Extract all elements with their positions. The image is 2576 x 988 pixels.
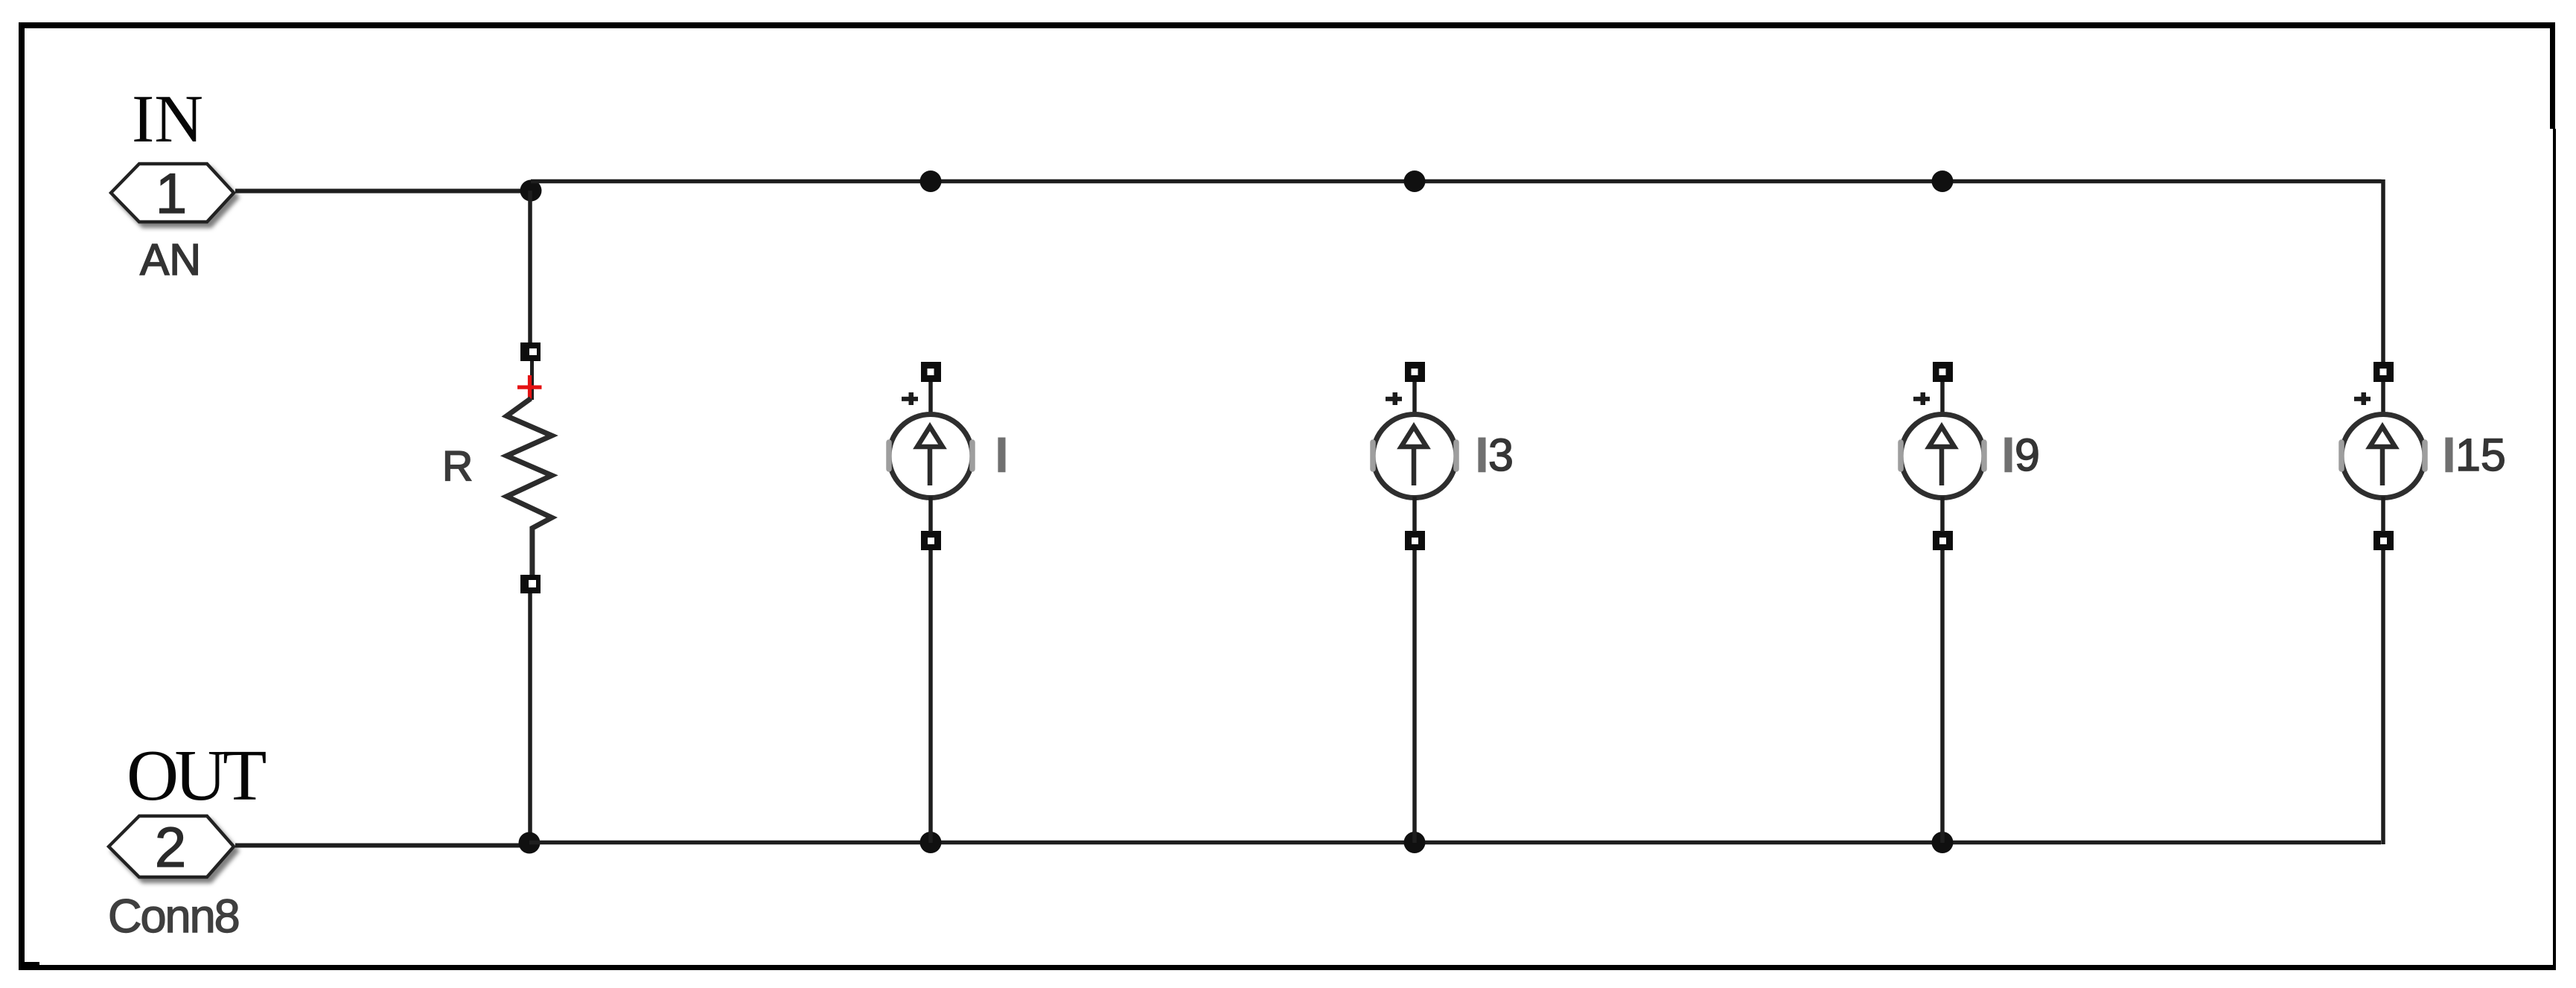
svg-text:OUT: OUT <box>127 736 266 815</box>
value label R <box>442 442 473 490</box>
current source I arrow <box>917 427 943 485</box>
current source I bottom terminal square <box>921 531 941 550</box>
current source I top terminal square <box>921 362 941 382</box>
node B junction dot (bottom of R) <box>519 832 541 854</box>
svg-text:IN: IN <box>132 81 203 156</box>
junction dot top rail at I3 <box>1404 170 1426 192</box>
wire I15 to rails <box>2381 497 2385 844</box>
current source I3 circle body <box>1373 415 1456 498</box>
current source I3 top terminal square <box>1405 362 1425 382</box>
svg-text:I3: I3 <box>1476 430 1514 480</box>
current source I9 circle body <box>1901 415 1984 498</box>
polarity plus of I15 <box>2354 392 2371 405</box>
current source I9 arrow <box>1929 427 1954 485</box>
current source I15 top terminal square <box>2373 362 2394 382</box>
pin number 2 <box>155 816 186 879</box>
resistor R zigzag body <box>507 398 552 576</box>
wire I terminal to circle <box>928 382 933 413</box>
label OUT <box>127 736 266 815</box>
port 1 hexagon (input port) <box>111 164 234 222</box>
wire node A down to resistor R <box>528 191 532 344</box>
value label I9 <box>2002 430 2040 480</box>
svg-text:I15: I15 <box>2443 430 2506 480</box>
current source I15 arrow <box>2370 427 2395 485</box>
current source I9 bottom terminal square <box>1933 531 1953 550</box>
junction dot top rail at I <box>920 170 942 192</box>
junction dot bottom rail at I <box>920 832 942 853</box>
wire I9 terminal to circle <box>1940 382 1945 413</box>
polarity plus of I9 <box>1913 392 1930 405</box>
current source I15 circle body <box>2341 415 2425 498</box>
wire I to rails <box>928 497 933 843</box>
wire top rail to I15 branch <box>531 179 2383 362</box>
current source I circle body <box>889 415 972 498</box>
label AN <box>140 235 201 284</box>
value label I <box>995 430 1008 480</box>
wire R to bottom rail <box>528 593 532 843</box>
wire I15 terminal to circle <box>2381 382 2385 413</box>
svg-text:Conn8: Conn8 <box>108 890 239 943</box>
value label I15 <box>2443 430 2506 480</box>
svg-text:I9: I9 <box>2002 430 2040 480</box>
pin number 1 <box>156 162 187 226</box>
wire I3 terminal to circle <box>1412 382 1417 413</box>
resistor R bottom terminal square <box>520 575 541 593</box>
current source I3 bottom terminal square <box>1405 531 1425 550</box>
svg-text:R: R <box>442 442 473 490</box>
polarity plus (red) of R <box>517 375 542 399</box>
wire I9 to rails <box>1940 497 1945 843</box>
svg-text:2: 2 <box>155 816 186 879</box>
svg-text:1: 1 <box>156 162 187 226</box>
label IN <box>132 81 203 156</box>
junction dot top rail at I9 <box>1932 170 1954 192</box>
value label I3 <box>1476 430 1514 480</box>
wire R terminal to zigzag <box>530 361 534 400</box>
resistor R top terminal square <box>520 342 541 361</box>
polarity plus of I <box>902 392 918 405</box>
polarity plus of I3 <box>1386 392 1402 405</box>
current source I15 bottom terminal square <box>2373 531 2394 550</box>
node A junction dot (top of R) <box>520 180 542 202</box>
current source I3 arrow <box>1401 427 1426 485</box>
wire bottom rail <box>529 841 2381 845</box>
svg-text:I: I <box>995 430 1008 480</box>
wire IN port to node A <box>235 189 526 194</box>
junction dot bottom rail at I9 <box>1932 832 1954 853</box>
port 2 hexagon (output port) <box>109 816 234 877</box>
wire OUT port to node B <box>235 844 524 848</box>
label Conn8 <box>108 890 239 943</box>
wire I3 to rails <box>1412 497 1417 843</box>
current source I9 top terminal square <box>1933 362 1953 382</box>
junction dot bottom rail at I3 <box>1404 832 1426 853</box>
svg-text:AN: AN <box>140 235 201 284</box>
